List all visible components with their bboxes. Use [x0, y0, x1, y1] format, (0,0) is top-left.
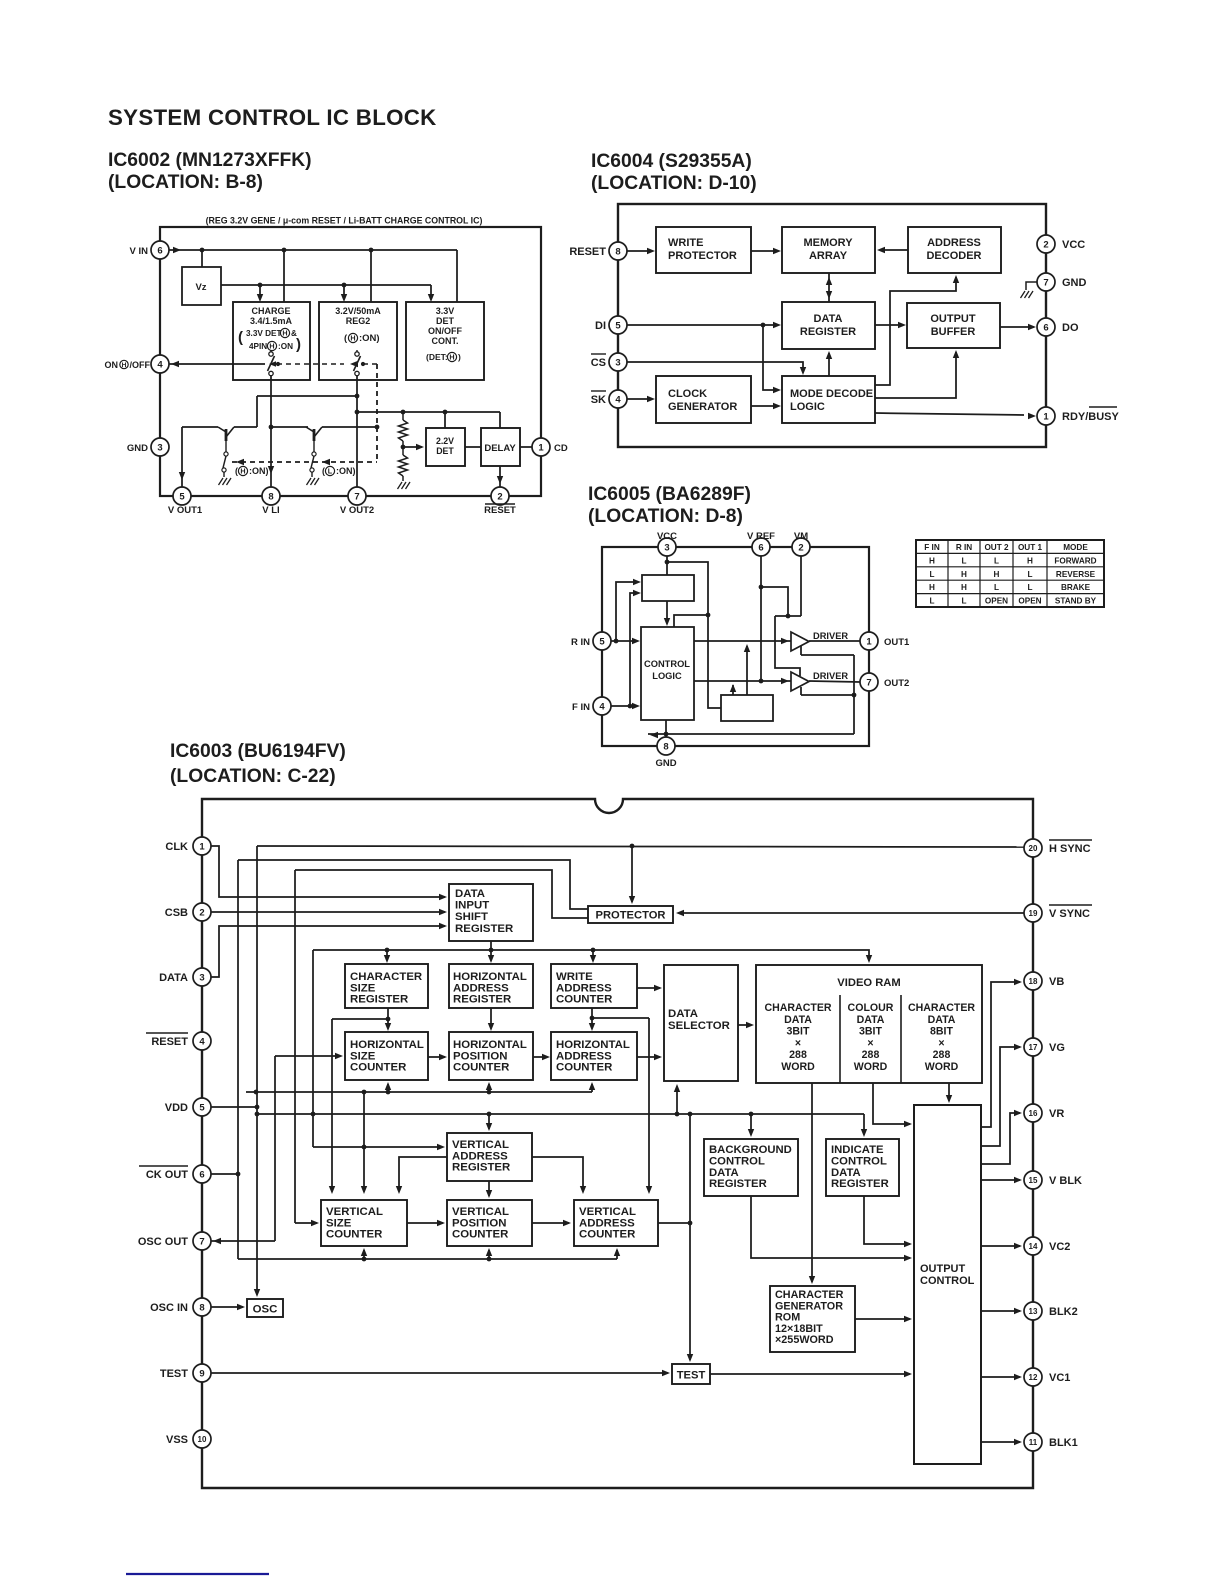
- svg-text:L: L: [961, 556, 966, 565]
- svg-text:DATA: DATA: [455, 888, 485, 900]
- svg-text:CHARACTER: CHARACTER: [350, 971, 422, 983]
- svg-text:L: L: [1027, 583, 1032, 592]
- svg-text:IC6004 (S29355A): IC6004 (S29355A): [591, 151, 752, 172]
- svg-text:DELAY: DELAY: [484, 443, 516, 454]
- svg-text:IC6005 (BA6289F): IC6005 (BA6289F): [588, 484, 751, 505]
- svg-text:VERTICAL: VERTICAL: [579, 1206, 636, 1218]
- svg-text:POSITION: POSITION: [453, 1050, 507, 1062]
- svg-text:TEST: TEST: [677, 1370, 706, 1382]
- svg-text:HORIZONTAL: HORIZONTAL: [453, 971, 527, 983]
- svg-text:CS: CS: [591, 357, 606, 369]
- svg-text:OUT2: OUT2: [884, 678, 909, 689]
- svg-text:(LOCATION: C-22): (LOCATION: C-22): [170, 766, 336, 787]
- svg-text:BACKGROUND: BACKGROUND: [709, 1144, 792, 1156]
- svg-text:RESET: RESET: [151, 1036, 188, 1048]
- svg-text:8: 8: [199, 1302, 204, 1313]
- svg-text:VC1: VC1: [1049, 1372, 1070, 1384]
- svg-text:OSC OUT: OSC OUT: [138, 1236, 188, 1248]
- svg-text:1: 1: [199, 841, 205, 852]
- svg-text::ON): :ON): [336, 466, 356, 476]
- svg-text:SELECTOR: SELECTOR: [668, 1020, 730, 1032]
- svg-text:PROTECTOR: PROTECTOR: [668, 250, 737, 262]
- svg-text:COLOUR: COLOUR: [848, 1002, 894, 1014]
- svg-text:GND: GND: [655, 758, 676, 769]
- svg-text:GENERATOR: GENERATOR: [668, 401, 737, 413]
- svg-text:6: 6: [199, 1169, 204, 1180]
- svg-text:H: H: [269, 342, 274, 351]
- svg-text:2: 2: [798, 542, 803, 553]
- svg-text:7: 7: [1043, 277, 1048, 288]
- svg-text:8: 8: [268, 491, 273, 502]
- svg-text:3.3V: 3.3V: [436, 306, 455, 316]
- svg-text:ADDRESS: ADDRESS: [556, 1050, 612, 1062]
- svg-text:ADDRESS: ADDRESS: [556, 982, 612, 994]
- svg-text:V SYNC: V SYNC: [1049, 908, 1090, 920]
- svg-text:INDICATE: INDICATE: [831, 1144, 884, 1156]
- svg-text:CONTROL: CONTROL: [644, 659, 690, 669]
- svg-text:): ): [458, 352, 461, 362]
- svg-text:RDY/BUSY: RDY/BUSY: [1062, 411, 1120, 423]
- svg-text:ON: ON: [105, 360, 119, 370]
- svg-text:L: L: [994, 583, 999, 592]
- svg-text:V REF: V REF: [747, 531, 775, 542]
- svg-text:4: 4: [599, 701, 605, 712]
- svg-text:SIZE: SIZE: [350, 1050, 376, 1062]
- svg-text:V OUT2: V OUT2: [340, 505, 374, 516]
- svg-text:REGISTER: REGISTER: [831, 1178, 889, 1190]
- svg-text:1: 1: [1043, 411, 1049, 422]
- svg-text:13: 13: [1029, 1307, 1038, 1316]
- svg-text:3: 3: [157, 442, 162, 453]
- svg-text:PROTECTOR: PROTECTOR: [595, 910, 665, 922]
- svg-text:16: 16: [1029, 1109, 1038, 1118]
- svg-text:8BIT: 8BIT: [930, 1026, 953, 1038]
- svg-text:1: 1: [866, 636, 872, 647]
- svg-text:LOGIC: LOGIC: [790, 401, 825, 413]
- svg-text:(: (: [235, 466, 238, 476]
- svg-text:1: 1: [538, 442, 544, 453]
- svg-text:VB: VB: [1049, 976, 1064, 988]
- svg-text:GND: GND: [127, 443, 148, 454]
- svg-text:SYSTEM CONTROL IC BLOCK: SYSTEM CONTROL IC BLOCK: [108, 105, 437, 130]
- svg-text:2: 2: [1043, 239, 1048, 250]
- svg-text:4: 4: [199, 1036, 205, 1047]
- svg-text:OSC IN: OSC IN: [150, 1302, 188, 1314]
- svg-text:VC2: VC2: [1049, 1241, 1070, 1253]
- svg-text:VERTICAL: VERTICAL: [326, 1206, 383, 1218]
- svg-text:2: 2: [497, 491, 502, 502]
- svg-text:SK: SK: [591, 394, 606, 406]
- svg-text:H: H: [929, 556, 935, 565]
- svg-text:H: H: [449, 353, 454, 362]
- svg-text:3: 3: [615, 357, 620, 368]
- svg-text:(LOCATION: D-8): (LOCATION: D-8): [588, 506, 743, 527]
- svg-text:VERTICAL: VERTICAL: [452, 1139, 509, 1151]
- svg-text:3: 3: [199, 972, 204, 983]
- svg-text:V OUT1: V OUT1: [168, 505, 203, 516]
- svg-text:DO: DO: [1062, 322, 1079, 334]
- svg-text:VERTICAL: VERTICAL: [452, 1206, 509, 1218]
- svg-text:OSC: OSC: [253, 1304, 278, 1316]
- svg-text:DATA: DATA: [784, 1014, 812, 1026]
- svg-text:×: ×: [795, 1037, 801, 1049]
- svg-text:COUNTER: COUNTER: [453, 1062, 509, 1074]
- svg-text:6: 6: [157, 245, 162, 256]
- svg-text:V IN: V IN: [130, 246, 149, 257]
- svg-text:STAND BY: STAND BY: [1055, 597, 1097, 606]
- svg-text:OUTPUT: OUTPUT: [930, 313, 976, 325]
- svg-text:OUT 1: OUT 1: [1018, 543, 1043, 552]
- svg-text:(REG 3.2V GENE / μ-com RESET /: (REG 3.2V GENE / μ-com RESET / Li-BATT C…: [206, 216, 483, 226]
- svg-text:GND: GND: [1062, 277, 1087, 289]
- svg-text:VIDEO RAM: VIDEO RAM: [837, 977, 900, 989]
- svg-text:DATA: DATA: [831, 1167, 861, 1179]
- svg-text:18: 18: [1029, 977, 1038, 986]
- svg-text:VG: VG: [1049, 1042, 1065, 1054]
- svg-text:BUFFER: BUFFER: [931, 326, 976, 338]
- svg-text:F IN: F IN: [572, 702, 590, 713]
- svg-text:OUTPUT: OUTPUT: [920, 1263, 966, 1275]
- svg-text:R IN: R IN: [571, 637, 590, 648]
- svg-text:VSS: VSS: [166, 1434, 188, 1446]
- svg-text:15: 15: [1029, 1176, 1038, 1185]
- svg-text:(: (: [238, 329, 243, 346]
- svg-text:5: 5: [179, 491, 185, 502]
- svg-text:6: 6: [758, 542, 763, 553]
- svg-text:/OFF: /OFF: [130, 360, 151, 370]
- svg-text:HORIZONTAL: HORIZONTAL: [350, 1039, 424, 1051]
- svg-text:COUNTER: COUNTER: [452, 1229, 508, 1241]
- svg-text:DATA: DATA: [159, 972, 188, 984]
- svg-text:ADDRESS: ADDRESS: [927, 237, 981, 249]
- svg-text:3: 3: [664, 542, 669, 553]
- svg-text:DI: DI: [595, 320, 606, 332]
- svg-text:ADDRESS: ADDRESS: [579, 1217, 635, 1229]
- svg-text:VCC: VCC: [1062, 239, 1085, 251]
- svg-text:CONTROL: CONTROL: [920, 1275, 975, 1287]
- svg-text:REG2: REG2: [346, 316, 371, 326]
- svg-text:7: 7: [199, 1236, 204, 1247]
- svg-text:V LI: V LI: [262, 505, 279, 516]
- svg-text:OPEN: OPEN: [985, 597, 1008, 606]
- svg-text:RESET: RESET: [569, 246, 606, 258]
- svg-text:COUNTER: COUNTER: [556, 1062, 612, 1074]
- svg-text:6: 6: [1043, 322, 1048, 333]
- svg-text:ON/OFF: ON/OFF: [428, 326, 462, 336]
- svg-text:L: L: [994, 556, 999, 565]
- svg-text:3.2V/50mA: 3.2V/50mA: [335, 306, 381, 316]
- svg-text:CONT.: CONT.: [432, 336, 459, 346]
- svg-text:CLK: CLK: [165, 841, 188, 853]
- svg-text:(: (: [322, 466, 325, 476]
- svg-text:11: 11: [1029, 1438, 1038, 1447]
- svg-text:5: 5: [599, 636, 605, 647]
- svg-text:L: L: [929, 570, 934, 579]
- svg-text:H: H: [240, 467, 245, 476]
- svg-text:OUT 2: OUT 2: [984, 543, 1009, 552]
- svg-text:GENERATOR: GENERATOR: [775, 1300, 843, 1312]
- svg-text:): ): [296, 336, 301, 353]
- svg-text:L: L: [1027, 570, 1032, 579]
- svg-text:ADDRESS: ADDRESS: [453, 982, 509, 994]
- svg-text:CHARACTER: CHARACTER: [764, 1002, 831, 1014]
- svg-text:H: H: [961, 583, 967, 592]
- svg-text:3BIT: 3BIT: [787, 1026, 810, 1038]
- svg-text:WORD: WORD: [781, 1061, 815, 1073]
- svg-text:CLOCK: CLOCK: [668, 388, 707, 400]
- svg-text:LOGIC: LOGIC: [652, 671, 682, 681]
- svg-text:REGISTER: REGISTER: [453, 994, 511, 1006]
- svg-text:12: 12: [1029, 1373, 1038, 1382]
- svg-text:BLK1: BLK1: [1049, 1437, 1078, 1449]
- svg-text:FORWARD: FORWARD: [1054, 556, 1096, 565]
- svg-text:IC6002 (MN1273XFFK): IC6002 (MN1273XFFK): [108, 150, 312, 171]
- svg-text:RESET: RESET: [484, 505, 516, 516]
- svg-text:H: H: [929, 583, 935, 592]
- svg-text:TEST: TEST: [160, 1368, 188, 1380]
- svg-text:WRITE: WRITE: [556, 971, 593, 983]
- svg-text:VDD: VDD: [165, 1102, 188, 1114]
- svg-text::ON: :ON: [278, 342, 293, 351]
- svg-text:F IN: F IN: [924, 543, 940, 552]
- svg-text:3.4/1.5mA: 3.4/1.5mA: [250, 316, 293, 326]
- svg-text:(LOCATION: B-8): (LOCATION: B-8): [108, 172, 263, 193]
- svg-text:10: 10: [198, 1435, 207, 1444]
- svg-text:WORD: WORD: [854, 1061, 888, 1073]
- svg-text:×: ×: [938, 1037, 944, 1049]
- svg-text:H: H: [1027, 556, 1033, 565]
- svg-text:WORD: WORD: [925, 1061, 959, 1073]
- svg-text:19: 19: [1029, 909, 1038, 918]
- svg-text:CK OUT: CK OUT: [146, 1169, 188, 1181]
- svg-text:REGISTER: REGISTER: [455, 923, 513, 935]
- svg-text:R IN: R IN: [956, 543, 972, 552]
- svg-text:CONTROL: CONTROL: [709, 1155, 765, 1167]
- svg-text:288: 288: [933, 1049, 951, 1061]
- svg-text:SHIFT: SHIFT: [455, 911, 488, 923]
- svg-text:CD: CD: [554, 443, 568, 454]
- svg-text:ADDRESS: ADDRESS: [452, 1150, 508, 1162]
- svg-text:H: H: [350, 334, 355, 343]
- svg-text:SIZE: SIZE: [326, 1217, 352, 1229]
- svg-text:4PIN: 4PIN: [249, 342, 267, 351]
- svg-text:5: 5: [199, 1102, 205, 1113]
- svg-text:×255WORD: ×255WORD: [775, 1334, 834, 1346]
- svg-text:Vz: Vz: [195, 282, 206, 293]
- svg-text:DATA: DATA: [857, 1014, 885, 1026]
- svg-text:5: 5: [615, 320, 621, 331]
- svg-text:17: 17: [1029, 1043, 1038, 1052]
- svg-text:7: 7: [354, 491, 359, 502]
- svg-text:CHARACTER: CHARACTER: [908, 1002, 975, 1014]
- svg-text:H: H: [122, 362, 127, 369]
- svg-text:288: 288: [789, 1049, 807, 1061]
- svg-text:288: 288: [862, 1049, 880, 1061]
- svg-text:DATA: DATA: [709, 1167, 739, 1179]
- svg-text:HORIZONTAL: HORIZONTAL: [556, 1039, 630, 1051]
- svg-text:V BLK: V BLK: [1049, 1175, 1082, 1187]
- svg-text:SIZE: SIZE: [350, 982, 376, 994]
- svg-text:L: L: [929, 597, 934, 606]
- svg-text:DET: DET: [436, 316, 455, 326]
- svg-text:REGISTER: REGISTER: [800, 326, 856, 338]
- svg-text:DET: DET: [436, 446, 454, 456]
- svg-text:COUNTER: COUNTER: [326, 1229, 382, 1241]
- svg-text:3BIT: 3BIT: [859, 1026, 882, 1038]
- svg-text:4: 4: [615, 394, 621, 405]
- svg-text:COUNTER: COUNTER: [556, 994, 612, 1006]
- svg-text:VR: VR: [1049, 1108, 1064, 1120]
- svg-text:HORIZONTAL: HORIZONTAL: [453, 1039, 527, 1051]
- svg-text:8: 8: [615, 246, 620, 257]
- svg-text:H: H: [994, 570, 1000, 579]
- svg-text:×: ×: [867, 1037, 873, 1049]
- svg-text:8: 8: [663, 741, 668, 752]
- svg-text:REGISTER: REGISTER: [452, 1162, 510, 1174]
- svg-text:DRIVER: DRIVER: [813, 671, 848, 681]
- svg-text:DECODER: DECODER: [926, 250, 981, 262]
- svg-text:9: 9: [199, 1368, 204, 1379]
- svg-text:OPEN: OPEN: [1018, 597, 1041, 606]
- svg-text:(LOCATION: D-10): (LOCATION: D-10): [591, 173, 757, 194]
- svg-text:MODE DECODE: MODE DECODE: [790, 388, 873, 400]
- svg-text::ON): :ON): [249, 466, 269, 476]
- svg-text:CHARACTER: CHARACTER: [775, 1289, 844, 1301]
- svg-text:BRAKE: BRAKE: [1061, 583, 1091, 592]
- svg-text:OUT1: OUT1: [884, 637, 910, 648]
- svg-text:3.3V DET: 3.3V DET: [246, 329, 282, 338]
- svg-text:CONTROL: CONTROL: [831, 1155, 887, 1167]
- svg-text:L: L: [328, 467, 333, 476]
- svg-text:DATA: DATA: [814, 313, 843, 325]
- svg-text:COUNTER: COUNTER: [350, 1062, 406, 1074]
- svg-text:H: H: [282, 329, 287, 338]
- svg-text:CHARGE: CHARGE: [251, 306, 290, 316]
- svg-text:IC6003 (BU6194FV): IC6003 (BU6194FV): [170, 741, 346, 762]
- svg-text:REVERSE: REVERSE: [1056, 570, 1096, 579]
- svg-text:DATA: DATA: [668, 1008, 698, 1020]
- svg-text:REGISTER: REGISTER: [350, 994, 408, 1006]
- svg-text:12×18BIT: 12×18BIT: [775, 1323, 823, 1335]
- svg-text:2.2V: 2.2V: [436, 436, 454, 446]
- svg-text:VCC: VCC: [657, 531, 677, 542]
- svg-text:L: L: [961, 597, 966, 606]
- svg-text:BLK2: BLK2: [1049, 1306, 1078, 1318]
- svg-text:ROM: ROM: [775, 1312, 800, 1324]
- svg-text:H SYNC: H SYNC: [1049, 843, 1091, 855]
- svg-text::ON): :ON): [359, 333, 380, 344]
- svg-text:REGISTER: REGISTER: [709, 1178, 767, 1190]
- svg-text:4: 4: [157, 359, 163, 370]
- svg-text:WRITE: WRITE: [668, 237, 703, 249]
- svg-text:COUNTER: COUNTER: [579, 1229, 635, 1241]
- svg-text:VM: VM: [794, 531, 808, 542]
- svg-text:7: 7: [866, 677, 871, 688]
- svg-text:(DET:: (DET:: [426, 352, 448, 362]
- svg-text:POSITION: POSITION: [452, 1217, 506, 1229]
- svg-text:DATA: DATA: [928, 1014, 956, 1026]
- svg-text:MEMORY: MEMORY: [803, 237, 853, 249]
- svg-text:CSB: CSB: [165, 907, 188, 919]
- svg-text:20: 20: [1029, 844, 1038, 853]
- svg-text:DRIVER: DRIVER: [813, 631, 848, 641]
- svg-text:MODE: MODE: [1063, 543, 1088, 552]
- svg-text:ARRAY: ARRAY: [809, 250, 848, 262]
- svg-text:INPUT: INPUT: [455, 900, 489, 912]
- svg-text:14: 14: [1029, 1242, 1038, 1251]
- svg-text:2: 2: [199, 907, 204, 918]
- svg-text:H: H: [961, 570, 967, 579]
